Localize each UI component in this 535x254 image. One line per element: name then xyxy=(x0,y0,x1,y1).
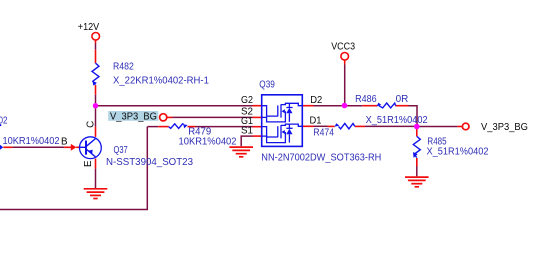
svg-text:G2: G2 xyxy=(241,95,253,106)
svg-text:B: B xyxy=(61,136,68,147)
svg-text:NN-2N7002DW_SOT363-RH: NN-2N7002DW_SOT363-RH xyxy=(261,153,381,164)
svg-text:R482: R482 xyxy=(113,61,134,72)
svg-text:10KR1%0402: 10KR1%0402 xyxy=(3,136,60,147)
svg-text:10KR1%0402: 10KR1%0402 xyxy=(179,137,237,148)
svg-text:E: E xyxy=(83,160,94,167)
svg-text:Q37: Q37 xyxy=(114,145,128,156)
svg-text:V_3P3_BG: V_3P3_BG xyxy=(110,111,157,122)
svg-text:V_3P3_BG: V_3P3_BG xyxy=(481,122,528,133)
svg-text:N-SST3904_SOT23: N-SST3904_SOT23 xyxy=(106,157,194,168)
svg-text:+12V: +12V xyxy=(78,22,100,33)
svg-text:VCC3: VCC3 xyxy=(331,42,355,53)
svg-text:02: 02 xyxy=(0,116,8,127)
svg-text:D1: D1 xyxy=(310,116,322,127)
svg-text:X_22KR1%0402-RH-1: X_22KR1%0402-RH-1 xyxy=(113,75,209,86)
svg-text:R486: R486 xyxy=(355,94,377,105)
svg-text:C: C xyxy=(86,121,97,128)
svg-text:X_51R1%0402: X_51R1%0402 xyxy=(427,147,489,158)
svg-text:S1: S1 xyxy=(241,125,253,136)
svg-text:Q39: Q39 xyxy=(259,79,275,90)
svg-text:D2: D2 xyxy=(310,95,322,106)
svg-text:0R: 0R xyxy=(396,94,409,105)
svg-text:X_51R1%0402: X_51R1%0402 xyxy=(366,115,428,126)
svg-text:R474: R474 xyxy=(313,127,334,138)
